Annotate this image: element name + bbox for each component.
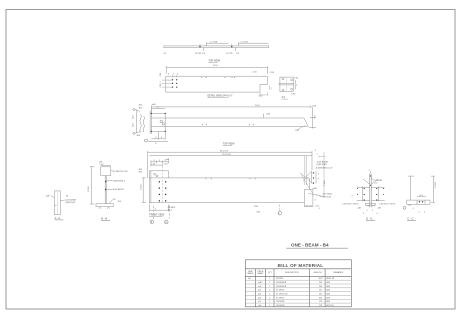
svg-text:TOP VIEW: TOP VIEW	[208, 59, 220, 62]
svg-text:234: 234	[319, 286, 322, 288]
svg-text:MARK: MARK	[248, 272, 254, 275]
svg-text:PL 3/8"X7: PL 3/8"X7	[276, 297, 284, 299]
svg-text:3: 3	[367, 210, 368, 212]
svg-text:6: 6	[155, 143, 156, 145]
svg-text:PL 3/8"X7: PL 3/8"X7	[276, 290, 284, 292]
svg-text:3: 3	[377, 213, 378, 215]
svg-text:305: 305	[319, 294, 322, 296]
svg-text:A36: A36	[327, 300, 330, 303]
svg-text:3: 3	[153, 160, 154, 162]
svg-text:5: 5	[317, 154, 318, 156]
svg-text:BILL OF MATERIAL: BILL OF MATERIAL	[278, 263, 324, 268]
svg-text:A - A: A - A	[55, 216, 61, 220]
svg-text:3 1/2: 3 1/2	[132, 123, 134, 127]
svg-text:178: 178	[319, 305, 322, 307]
svg-text:234: 234	[319, 282, 322, 284]
svg-text:4-3/4" A490N: 4-3/4" A490N	[317, 161, 329, 164]
svg-text:A36: A36	[327, 281, 330, 284]
svg-text:L3X3X3/8X0'-6: L3X3X3/8X0'-6	[113, 180, 125, 182]
svg-text:4-3/4" A490N: 4-3/4" A490N	[113, 188, 124, 191]
svg-text:1: 1	[269, 286, 270, 288]
svg-text:1: 1	[269, 305, 270, 307]
svg-text:15'-9 1/4: 15'-9 1/4	[222, 154, 231, 156]
svg-text:2: 2	[296, 85, 297, 87]
svg-text:DETAIL VIEW 3/4"=1'-0": DETAIL VIEW 3/4"=1'-0"	[208, 95, 233, 98]
svg-text:1-PL 3/8X4: 1-PL 3/8X4	[323, 194, 332, 196]
svg-text:2 3/4: 2 3/4	[294, 77, 298, 79]
svg-text:3: 3	[315, 200, 316, 202]
svg-text:A36: A36	[327, 293, 330, 296]
svg-text:p17: p17	[258, 290, 261, 292]
svg-text:1'-7 5/8: 1'-7 5/8	[210, 41, 218, 43]
svg-text:3: 3	[173, 73, 174, 75]
svg-text:3: 3	[159, 160, 160, 162]
svg-text:L3X3X3/8 B: L3X3X3/8 B	[276, 286, 287, 288]
svg-text:A572-50: A572-50	[327, 304, 334, 307]
svg-text:MARK: MARK	[258, 272, 264, 275]
svg-text:2 1/4: 2 1/4	[160, 84, 162, 88]
svg-text:127: 127	[319, 290, 322, 292]
svg-text:C - C: C - C	[407, 216, 413, 220]
svg-text:3: 3	[363, 213, 364, 215]
svg-text:2 3/4: 2 3/4	[270, 72, 274, 74]
svg-text:3 1/2: 3 1/2	[258, 96, 262, 98]
svg-text:1 1/2: 1 1/2	[151, 164, 155, 166]
svg-text:A36: A36	[327, 289, 330, 292]
svg-text:3: 3	[177, 73, 178, 75]
svg-text:1'-2 1/8: 1'-2 1/8	[324, 180, 326, 186]
svg-text:L3X3X3/8 B: L3X3X3/8 B	[276, 282, 287, 284]
svg-text:X1'-2: X1'-2	[168, 209, 172, 211]
svg-text:1 1/2: 1 1/2	[164, 164, 168, 166]
svg-text:2 1/4: 2 1/4	[419, 195, 423, 197]
svg-text:7 1/4: 7 1/4	[315, 115, 317, 119]
svg-text:PL 3/8"X4 1/2: PL 3/8"X4 1/2	[276, 294, 288, 296]
svg-text:3/16: 3/16	[118, 201, 122, 203]
svg-text:1'-2 3/8: 1'-2 3/8	[435, 182, 437, 188]
svg-text:3: 3	[419, 212, 420, 214]
svg-text:3: 3	[319, 208, 320, 210]
svg-text:(2)NS (2)FS: (2)NS (2)FS	[65, 202, 75, 204]
svg-text:10 7/8: 10 7/8	[226, 53, 233, 55]
svg-text:3: 3	[315, 150, 316, 152]
svg-text:3: 3	[352, 195, 354, 196]
svg-text:5 1/2: 5 1/2	[100, 164, 104, 166]
svg-text:3/16: 3/16	[139, 105, 143, 107]
svg-text:6: 6	[155, 209, 156, 211]
svg-text:L5X3X3/8: L5X3X3/8	[276, 301, 284, 303]
svg-text:3/16: 3/16	[139, 108, 143, 110]
svg-text:3: 3	[424, 212, 425, 214]
svg-text:1'-7 5/8: 1'-7 5/8	[240, 41, 248, 43]
svg-text:2 1/4: 2 1/4	[160, 73, 162, 77]
svg-text:16'-0 1/2: 16'-0 1/2	[220, 151, 229, 153]
svg-text:1'-1 3/4: 1'-1 3/4	[88, 186, 90, 192]
svg-text:p18: p18	[258, 294, 261, 296]
svg-text:TOP VIEW: TOP VIEW	[223, 143, 235, 146]
svg-text:5/16: 5/16	[257, 211, 261, 213]
svg-text:(2)NS (2)FS: (2)NS (2)FS	[317, 164, 328, 166]
svg-text:6: 6	[158, 107, 159, 109]
svg-text:3/16: 3/16	[137, 135, 141, 137]
svg-text:2 1/4: 2 1/4	[252, 72, 256, 74]
svg-text:1: 1	[269, 294, 270, 296]
svg-text:1/4: 1/4	[113, 199, 116, 201]
svg-text:W12X26: W12X26	[276, 278, 283, 280]
svg-text:L5X3X3/8: L5X3X3/8	[276, 305, 284, 307]
svg-text:3/16: 3/16	[312, 105, 316, 107]
svg-text:1'-1 3/4: 1'-1 3/4	[140, 184, 142, 190]
svg-text:3: 3	[318, 179, 319, 181]
svg-text:3: 3	[168, 73, 169, 75]
svg-text:16'-0: 16'-0	[255, 105, 261, 107]
svg-text:QTY: QTY	[268, 272, 273, 274]
svg-text:16'-0: 16'-0	[213, 65, 219, 67]
svg-text:B4: B4	[248, 278, 250, 280]
svg-text:D - D: D - D	[366, 216, 372, 220]
svg-text:3/16: 3/16	[139, 169, 143, 171]
svg-text:3/16: 3/16	[254, 206, 258, 208]
svg-text:3/16: 3/16	[266, 114, 270, 116]
svg-text:3: 3	[372, 210, 373, 212]
svg-text:a14: a14	[258, 305, 261, 307]
svg-text:3: 3	[155, 137, 156, 139]
svg-text:A36: A36	[327, 285, 330, 288]
svg-text:5/16: 5/16	[295, 130, 299, 132]
svg-text:2-3/4"X3 1/2" SLOTS: 2-3/4"X3 1/2" SLOTS	[379, 204, 396, 206]
svg-text:2 3/4: 2 3/4	[291, 94, 295, 96]
svg-text:1: 1	[269, 290, 270, 292]
svg-text:a13: a13	[258, 301, 261, 303]
svg-text:3/4: 3/4	[66, 195, 69, 197]
svg-text:178: 178	[319, 301, 322, 303]
svg-text:PL 3/8X7X0'-9 3/4: PL 3/8X7X0'-9 3/4	[113, 171, 127, 173]
svg-text:3: 3	[161, 137, 162, 139]
svg-text:1: 1	[269, 301, 270, 303]
svg-text:3: 3	[413, 208, 414, 210]
svg-text:X0'-11 3/4: X0'-11 3/4	[323, 196, 331, 198]
svg-text:p19: p19	[258, 297, 261, 299]
svg-text:2: 2	[369, 170, 370, 172]
svg-text:3: 3	[160, 82, 162, 83]
svg-text:LENGTH: LENGTH	[313, 272, 322, 274]
svg-text:4567: 4567	[319, 278, 323, 280]
svg-text:B - B: B - B	[101, 216, 107, 220]
svg-text:A992 GR: A992 GR	[327, 277, 335, 280]
svg-text:ONE - BEAM - B4: ONE - BEAM - B4	[291, 243, 329, 248]
svg-text:3: 3	[318, 173, 319, 175]
svg-text:REMARKS: REMARKS	[333, 271, 344, 274]
svg-text:3/16: 3/16	[139, 172, 143, 174]
svg-text:3 1/2: 3 1/2	[132, 115, 134, 119]
svg-text:1: 1	[269, 297, 270, 299]
svg-text:FRONT VIEW: FRONT VIEW	[149, 213, 165, 216]
svg-text:DESCRIPTION: DESCRIPTION	[285, 272, 299, 274]
svg-text:2L3X3X3/8X0'-4 1/2: 2L3X3X3/8X0'-4 1/2	[316, 168, 333, 170]
svg-text:A36: A36	[327, 296, 330, 299]
svg-text:356: 356	[319, 297, 322, 299]
svg-text:2: 2	[271, 88, 272, 90]
svg-text:1: 1	[269, 278, 270, 280]
svg-text:1: 1	[269, 282, 270, 284]
svg-text:10 7/8: 10 7/8	[195, 53, 202, 55]
svg-text:2-3/4"X3 1/2" SLOTS: 2-3/4"X3 1/2" SLOTS	[342, 204, 359, 206]
